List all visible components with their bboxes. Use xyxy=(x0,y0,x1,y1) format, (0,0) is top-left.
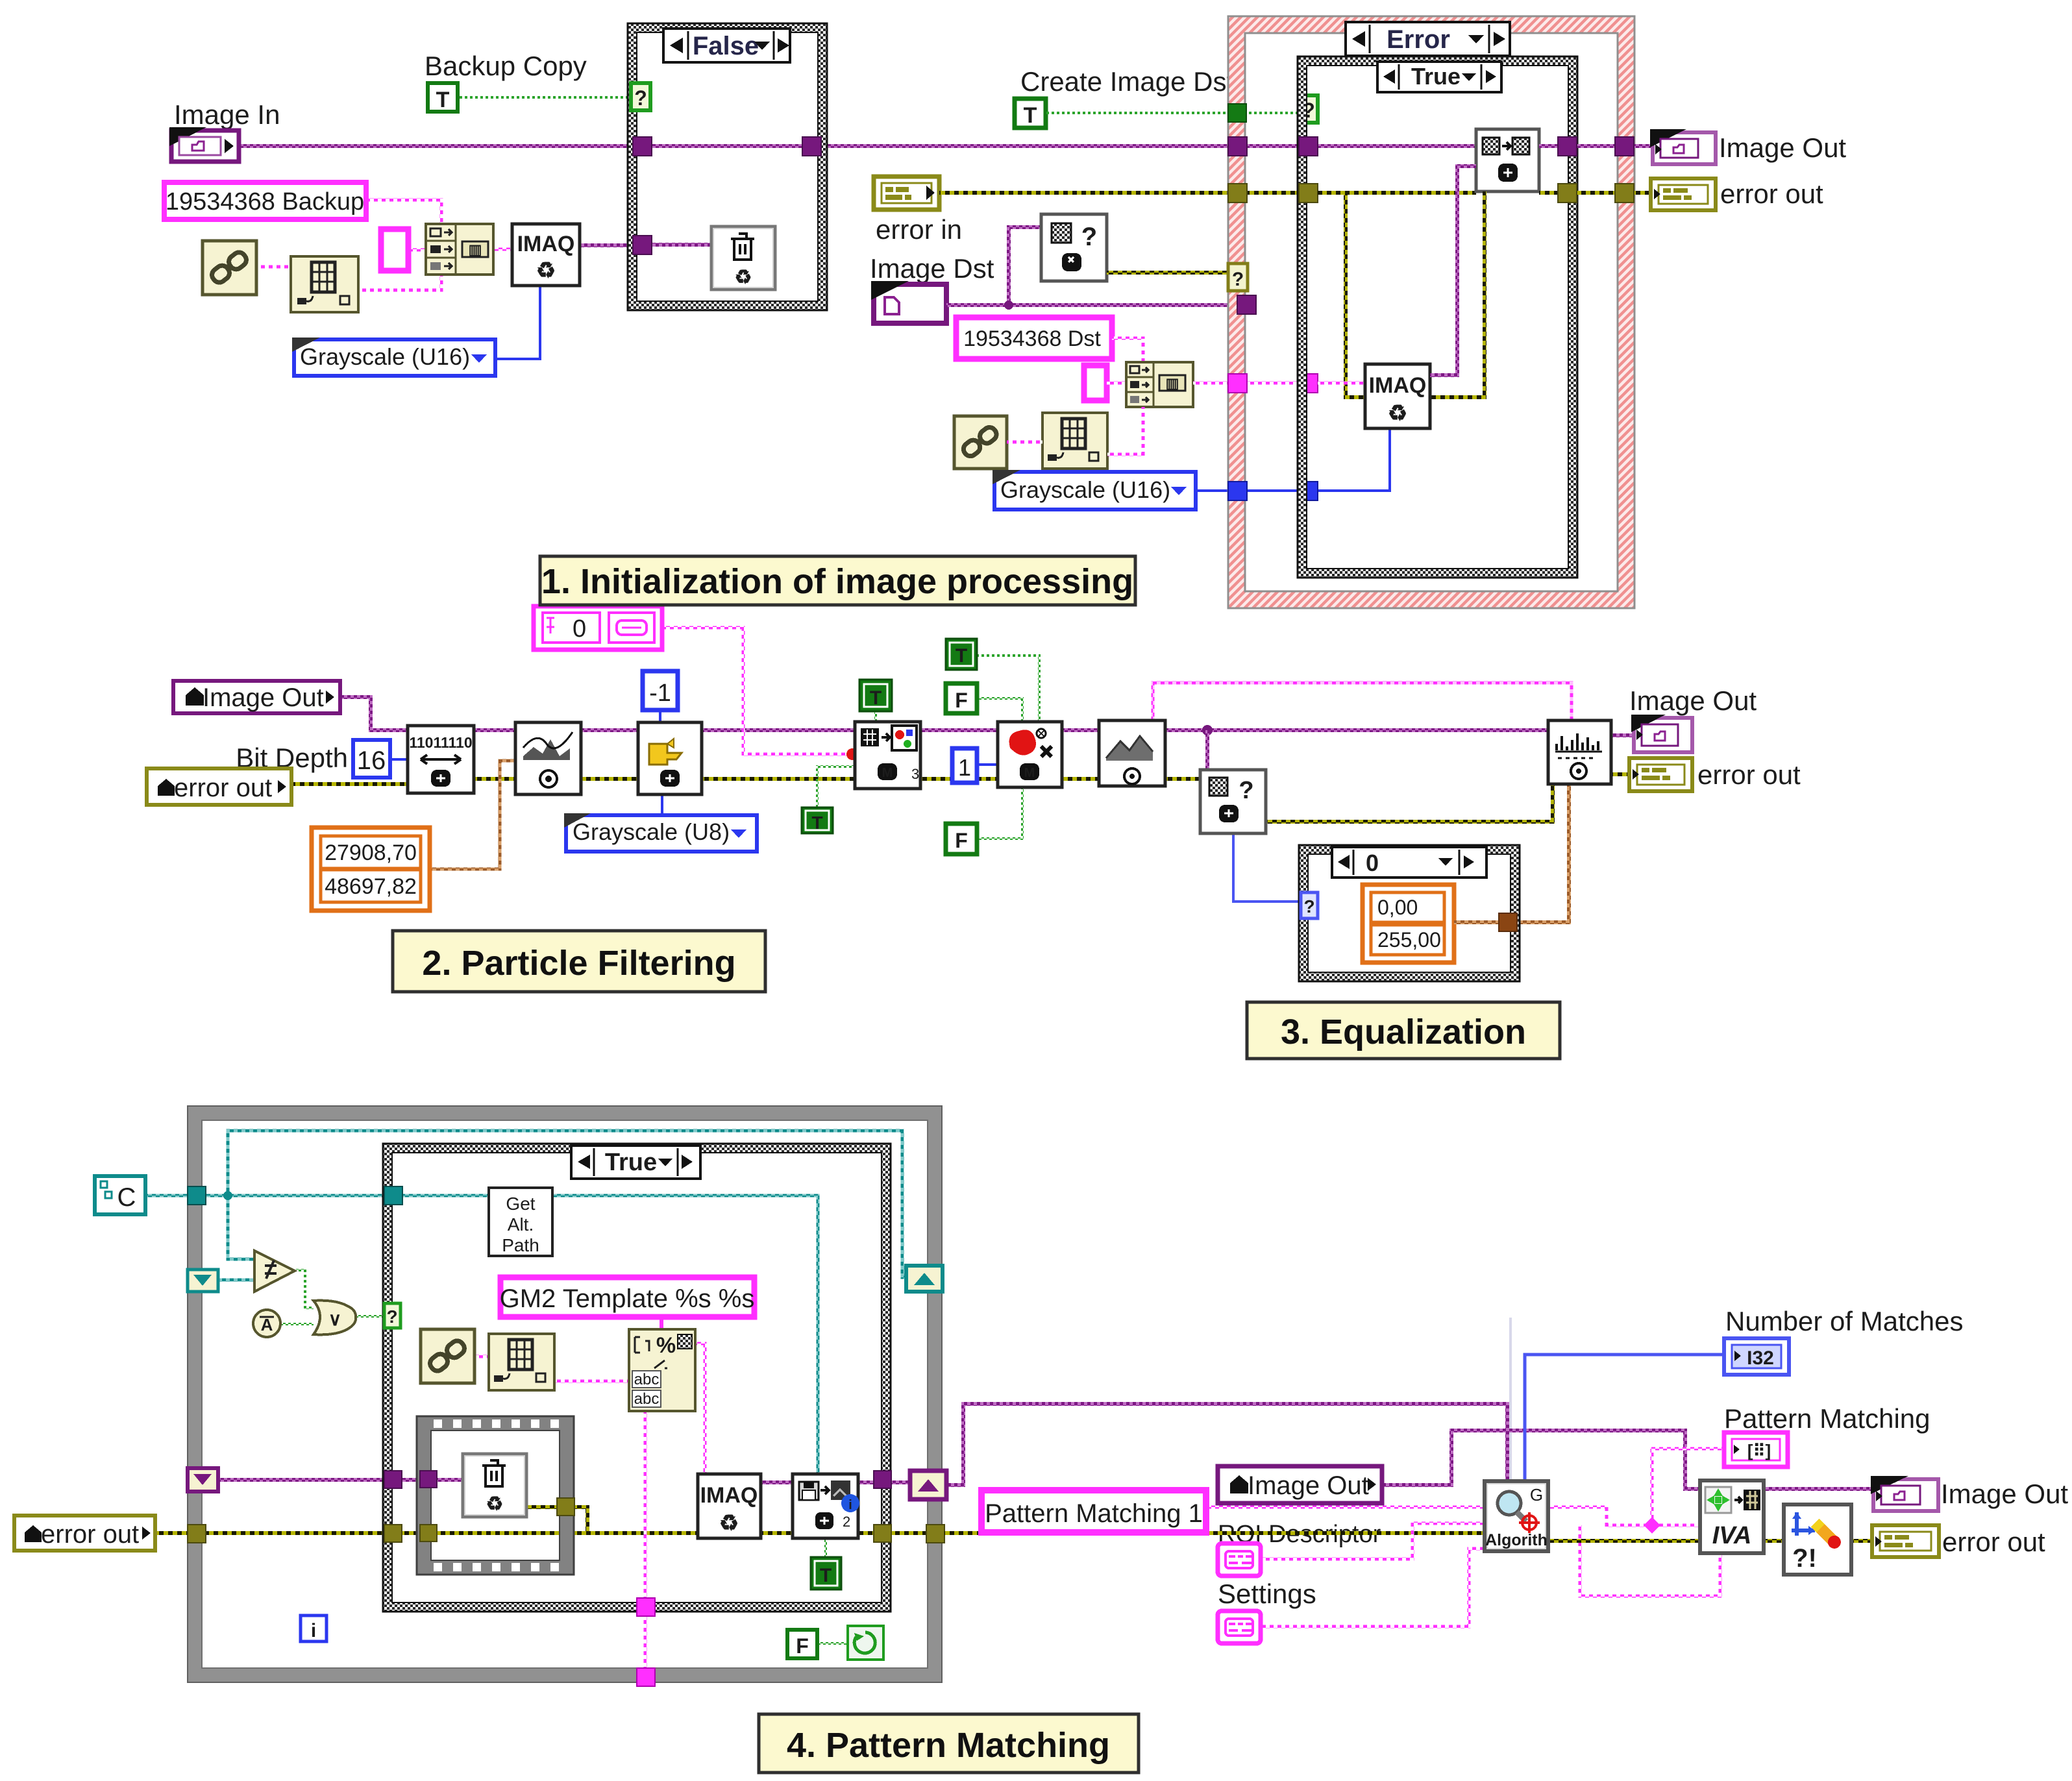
svg-text:Image Out: Image Out xyxy=(1941,1479,2068,1509)
wire error out var across loop xyxy=(155,1531,698,1535)
wire T to save node xyxy=(824,1538,827,1557)
svg-text:?: ? xyxy=(1232,269,1244,290)
tunnel olive on red border right xyxy=(1615,184,1634,203)
svg-text:M: M xyxy=(1024,766,1035,780)
svg-text:abc: abc xyxy=(634,1390,660,1408)
indicator error out (top right) xyxy=(1651,178,1716,210)
svg-text:3. Equalization: 3. Equalization xyxy=(1281,1013,1526,1051)
node Get Alt Path xyxy=(489,1188,552,1256)
tunnel blue on True border xyxy=(1299,482,1318,500)
wire matches branch to Pattern Matching indicator xyxy=(1652,1449,1724,1525)
tunnel purple on case border right xyxy=(874,1471,891,1488)
wire -1 to cast node3 xyxy=(659,711,661,724)
tunnel olive on film border left xyxy=(420,1525,437,1541)
wire error chain (olive) xyxy=(291,779,1553,822)
wire not-equal to or xyxy=(296,1270,314,1308)
svg-text:Backup Copy: Backup Copy xyxy=(425,51,587,81)
label box 4. Pattern Matching xyxy=(759,1714,1139,1773)
boolean constant T above node4 xyxy=(859,680,892,711)
svg-text:GM2 Template %s %s: GM2 Template %s %s xyxy=(500,1284,755,1313)
svg-text:0: 0 xyxy=(1366,850,1379,876)
svg-text:4. Pattern Matching: 4. Pattern Matching xyxy=(787,1726,1110,1765)
local variable Image Out (loop area) xyxy=(1218,1466,1382,1503)
string constant Pattern Matching 1 xyxy=(981,1490,1206,1532)
numeric constant 1 xyxy=(952,748,977,783)
wire chain to grid xyxy=(256,265,291,269)
node5 remove particle xyxy=(998,722,1062,787)
case selector label True xyxy=(1377,62,1501,92)
cluster constant 0 (top) xyxy=(534,606,662,650)
cluster constant 27908,70 48697,82 xyxy=(312,828,430,911)
tunnel green on red border xyxy=(1228,104,1246,122)
wire GM2 to format node xyxy=(660,1317,663,1331)
tunnel brown on case right border xyxy=(1499,913,1517,931)
wire cluster 0 to color node (pink) xyxy=(662,628,850,754)
wire or to case selector xyxy=(356,1315,384,1318)
wire chain3 to grid3 xyxy=(475,1355,489,1358)
svg-text:T: T xyxy=(811,813,822,833)
wire orange from case to node8 (brown) xyxy=(1515,785,1569,922)
svg-text:?: ? xyxy=(386,1307,397,1327)
svg-text:16: 16 xyxy=(357,746,386,775)
wire settings1 to algorithm xyxy=(1259,1523,1485,1559)
case structure False xyxy=(628,23,827,310)
node1 cast 11011110 xyxy=(408,726,474,793)
wire purple down to node7 xyxy=(1205,730,1209,771)
wire node8 image out xyxy=(1611,733,1634,737)
wire Grayscale U16 right to IMAQ create 2 xyxy=(1196,428,1390,491)
wire teal shift register to not-equal xyxy=(218,1279,254,1282)
wire roi pink node6 to node8 (magenta) xyxy=(1153,683,1572,720)
svg-text:Image Out: Image Out xyxy=(1629,685,1757,716)
boolean constant T under save node xyxy=(811,1557,841,1590)
wire IMAQ create dst image to copy xyxy=(1430,166,1476,375)
tunnel olive on True border right xyxy=(1558,184,1577,203)
wire algorithm lower loop to IVA bottom xyxy=(1580,1525,1720,1596)
node IMAQ Dispose (trash) in False case xyxy=(711,227,775,289)
string constant 19534368 Dst xyxy=(956,317,1112,359)
svg-text:[⠿]: [⠿] xyxy=(1747,1441,1771,1460)
svg-text:I32: I32 xyxy=(1747,1347,1774,1369)
boolean constant T (Create Image Dst) xyxy=(1015,99,1046,128)
string constant 19534368 Backup xyxy=(164,182,366,219)
svg-text:2: 2 xyxy=(843,1514,850,1530)
ring constant Grayscale (U16) left xyxy=(292,338,495,376)
svg-text:Algorith: Algorith xyxy=(1485,1531,1548,1549)
tunnel purple on red border (Image Dst) xyxy=(1237,295,1256,314)
wire copy node error out xyxy=(1539,191,1651,195)
wire error IMAQ to save to exit xyxy=(761,1531,1483,1535)
boolean constant T below left of node4 xyxy=(802,807,833,833)
wire error out to algorithm xyxy=(944,1531,1485,1535)
wire T const below to color node4 xyxy=(817,767,855,807)
tunnel pink on case bottom border xyxy=(637,1598,655,1616)
svg-text:Grayscale (U8): Grayscale (U8) xyxy=(573,818,730,845)
wire purple IMAQ to save xyxy=(761,1480,793,1484)
svg-text:-1: -1 xyxy=(649,680,671,707)
node IMAQ Create Dst xyxy=(1365,364,1430,428)
svg-text:Image Out: Image Out xyxy=(1719,132,1846,163)
svg-text:error out: error out xyxy=(1697,759,1801,790)
tunnel olive on case border right xyxy=(874,1525,891,1542)
node IMAQ Write File (save) xyxy=(793,1474,859,1538)
empty array bracket constant 2 xyxy=(1084,365,1107,400)
tunnel olive on loop border xyxy=(188,1525,206,1543)
node3 remove/funnel xyxy=(638,722,702,794)
label box 2. Particle Filtering xyxy=(393,931,765,992)
local variable error out xyxy=(147,768,291,805)
svg-text:i: i xyxy=(311,1620,316,1641)
svg-text:♻: ♻ xyxy=(536,258,556,283)
wire node7 blue to small case selector xyxy=(1233,833,1301,902)
node build array 2 xyxy=(1126,362,1193,407)
coercion dot at color node xyxy=(846,748,858,760)
tunnel pink on loop bottom border xyxy=(637,1668,655,1686)
wire Dst name to build node xyxy=(1112,338,1143,365)
icon chain link constant 2 xyxy=(954,416,1007,469)
wire bracket2 to build node xyxy=(1107,382,1128,385)
case selector label False xyxy=(663,29,790,62)
shift register purple (left, down arrow) xyxy=(188,1468,218,1492)
svg-text:Number of Matches: Number of Matches xyxy=(1725,1306,1963,1336)
svg-text:error out: error out xyxy=(41,1520,139,1549)
wire grid2 up to build2 xyxy=(1107,407,1143,454)
wire image chain (purple) xyxy=(340,697,1548,730)
svg-text:F: F xyxy=(955,829,968,852)
tunnel pink on red border xyxy=(1228,374,1247,393)
svg-text:IMAQ: IMAQ xyxy=(517,232,575,256)
svg-text:error out: error out xyxy=(1720,178,1823,209)
svg-text:19534368 Backup: 19534368 Backup xyxy=(166,188,364,215)
icon chain link constant 3 xyxy=(421,1329,475,1383)
wire teal C into loop xyxy=(145,1194,386,1198)
case structure 0 (small) xyxy=(1299,845,1520,981)
wire purple shift register into case to trash xyxy=(218,1478,464,1482)
svg-text:27908,70: 27908,70 xyxy=(325,841,417,865)
svg-text:T: T xyxy=(956,645,967,667)
shift register teal (right, up arrow) xyxy=(906,1266,943,1292)
svg-text:T: T xyxy=(820,1565,832,1586)
wire chain2 to grid2 xyxy=(1007,441,1042,444)
tunnel purple left (Image In) xyxy=(633,137,652,156)
label box 1. Initialization of image processing xyxy=(540,556,1135,605)
tunnel purple on case border xyxy=(384,1471,402,1488)
node6 mountains xyxy=(1099,720,1165,786)
wire first-call to or xyxy=(281,1323,314,1325)
node IMAQ Copy xyxy=(1476,129,1539,191)
numeric constant -1 xyxy=(643,671,678,710)
node build array xyxy=(426,224,493,275)
svg-text:Path: Path xyxy=(502,1235,539,1255)
ring constant Grayscale (U8) xyxy=(564,813,757,852)
svg-text:?: ? xyxy=(634,86,647,110)
selector terminal ? (green) of True case xyxy=(1300,95,1318,123)
junction diamond on matches wire xyxy=(1644,1517,1660,1533)
svg-text:♻: ♻ xyxy=(486,1493,504,1515)
wire format output to IMAQ readfile xyxy=(695,1344,705,1474)
node or xyxy=(314,1301,356,1335)
svg-text:error in: error in xyxy=(876,214,962,245)
boolean constant T (for node5) xyxy=(946,639,977,670)
tunnels on red border left (redrawn above hatch) xyxy=(1228,104,1246,122)
local variable error out (loop) xyxy=(14,1516,155,1551)
cluster constant C xyxy=(95,1176,145,1214)
svg-text:19534368 Dst: 19534368 Dst xyxy=(963,326,1101,351)
node IMAQ Create (backup) xyxy=(512,224,580,286)
icon chain link constant xyxy=(203,241,256,295)
wire F below to particle node5 xyxy=(977,787,1022,839)
wire range cluster to histogram node (brown) xyxy=(430,761,517,869)
node IMAQ ReadFile xyxy=(698,1474,761,1538)
wire F to particle node5 xyxy=(977,698,1022,723)
svg-text:11011110: 11011110 xyxy=(409,734,472,751)
svg-text:?: ? xyxy=(1303,896,1314,916)
node first call xyxy=(253,1310,280,1337)
svg-text:F: F xyxy=(796,1634,809,1658)
wire settings2 to algorithm xyxy=(1259,1549,1485,1627)
svg-text:▥: ▥ xyxy=(1166,375,1179,391)
tunnel olive on red border (error in) xyxy=(1228,184,1247,203)
node2 histogram xyxy=(515,722,581,794)
node7 is error? xyxy=(1200,770,1266,833)
wire error inside True: tunnel down to IMAQ create xyxy=(1318,193,1365,397)
wire 1 const to node5 xyxy=(977,763,999,766)
case structure True (inner) xyxy=(1298,56,1577,578)
local variable Image Out xyxy=(173,681,340,713)
svg-text:Get: Get xyxy=(506,1194,535,1214)
shift register purple (right, up arrow) xyxy=(910,1471,946,1499)
svg-text:1: 1 xyxy=(958,754,971,781)
flat sequence (film) structure xyxy=(417,1416,574,1575)
indicator Number of Matches I32 xyxy=(1724,1338,1789,1375)
ring constant Grayscale (U16) right xyxy=(993,470,1196,510)
wire F to loop condition xyxy=(817,1642,848,1645)
svg-text:♻: ♻ xyxy=(1388,401,1407,426)
case structure Error (red hatched) xyxy=(1228,16,1634,608)
wire build node to IMAQ create xyxy=(493,248,513,251)
wire Backup Copy boolean to case selector xyxy=(457,96,635,99)
node key-table 2 xyxy=(1042,413,1107,469)
loop condition terminal xyxy=(848,1626,883,1660)
wire Grayscale U8 to node3 xyxy=(661,794,663,817)
wire Image In (purple image wire across top) xyxy=(238,144,1476,148)
tunnel pink on True border xyxy=(1299,374,1318,393)
tunnel purple on film border xyxy=(420,1471,437,1488)
wire teal inside case to GetAltPath and save node xyxy=(402,1196,818,1474)
svg-text:▥: ▥ xyxy=(469,241,482,258)
wire teal top branch xyxy=(228,1131,911,1277)
wire number of matches (blue) xyxy=(1525,1355,1724,1481)
wire Image Dst to tunnel xyxy=(946,303,1239,307)
node not-equal xyxy=(254,1251,295,1292)
wire format string down through borders xyxy=(644,1411,647,1685)
wire trash branch inside False case xyxy=(650,243,711,247)
svg-text:Pattern Matching 1: Pattern Matching 1 xyxy=(985,1499,1203,1528)
wire Create Image Dst to Error-case selector xyxy=(1046,112,1301,114)
cluster constant settings 2 xyxy=(1218,1611,1261,1643)
svg-text:%: % xyxy=(656,1333,676,1358)
wire grid to build node xyxy=(358,270,441,290)
svg-text:Image Out: Image Out xyxy=(203,683,324,712)
svg-text:IMAQ: IMAQ xyxy=(1369,373,1427,398)
shift register teal (left, down arrow) xyxy=(188,1270,218,1292)
node key-table 3 xyxy=(489,1334,554,1390)
junction purple before node7 xyxy=(1202,725,1213,735)
svg-text:Grayscale (U16): Grayscale (U16) xyxy=(300,343,470,370)
tunnel purple on red border left (image) xyxy=(1228,137,1247,156)
svg-text:♻: ♻ xyxy=(719,1511,739,1536)
tunnel olive on loop border right xyxy=(926,1525,944,1543)
cluster constant settings 1 xyxy=(1218,1543,1261,1576)
svg-text:error out: error out xyxy=(174,774,272,802)
svg-text:0,00: 0,00 xyxy=(1377,896,1418,919)
svg-text:True: True xyxy=(605,1149,657,1176)
svg-text:0: 0 xyxy=(573,615,586,643)
tunnel olive on case border xyxy=(384,1525,402,1542)
wire grid3 to format node xyxy=(554,1380,630,1383)
terminal Image Out (top right) xyxy=(1650,129,1716,164)
svg-text:T: T xyxy=(436,88,450,112)
svg-text:255,00: 255,00 xyxy=(1377,928,1441,952)
iteration terminal i xyxy=(301,1615,327,1641)
svg-text:2. Particle Filtering: 2. Particle Filtering xyxy=(422,944,735,983)
svg-text:IMAQ: IMAQ xyxy=(700,1483,758,1508)
selector terminal ? (green, pattern case) xyxy=(384,1303,401,1328)
junction teal xyxy=(223,1191,232,1200)
wire pink inside True to IMAQ create xyxy=(1318,382,1365,385)
node Pattern Matching Algorithm xyxy=(1485,1481,1548,1551)
boolean constant F below (for node5) xyxy=(946,824,977,854)
node8 equalize xyxy=(1548,720,1611,784)
svg-text:?!: ?! xyxy=(1792,1544,1817,1573)
svg-text:?: ? xyxy=(1239,777,1253,804)
tunnel purple right (Image In) xyxy=(802,137,821,156)
cluster constant 0,00 255,00 xyxy=(1363,885,1454,963)
indicator error out (middle) xyxy=(1629,758,1692,791)
wire teal down branch to not-equal xyxy=(228,1196,254,1259)
empty array bracket constant xyxy=(381,229,408,271)
svg-text:∨: ∨ xyxy=(328,1309,342,1329)
indicator Pattern Matching array xyxy=(1724,1432,1788,1467)
wire trash error to junction xyxy=(526,1507,587,1533)
wire 16 to cast node1 xyxy=(390,758,409,761)
svg-text:Image Out: Image Out xyxy=(1248,1471,1369,1500)
svg-text:T: T xyxy=(870,687,882,709)
string constant GM2 Template %s %s xyxy=(500,1277,755,1317)
node IMAQ Dispose (trash in film) xyxy=(463,1454,526,1517)
wire build2 to pink tunnel xyxy=(1193,382,1365,385)
tunnel olive on film border right xyxy=(557,1498,574,1516)
wire Image Out var to IVA (purple) xyxy=(1382,1431,1873,1489)
wire Grayscale U16 to IMAQ create bottom xyxy=(495,286,540,359)
node format into string xyxy=(629,1329,695,1411)
terminal Image Out (middle) xyxy=(1631,715,1692,752)
boolean constant T (Backup Copy) xyxy=(428,83,458,112)
wire IMAQ create output to case tunnel xyxy=(580,243,637,247)
case structure True (pattern) xyxy=(383,1144,891,1612)
svg-text:♻: ♻ xyxy=(735,267,752,288)
wire purple exits loop up to pattern matching xyxy=(946,1404,1507,1485)
svg-text:T: T xyxy=(1024,103,1037,128)
wire cluster to tunnel (brown) xyxy=(1454,920,1505,924)
tunnel teal on loop border xyxy=(188,1186,206,1205)
terminal error in xyxy=(874,177,939,210)
svg-text:Pattern Matching: Pattern Matching xyxy=(1724,1403,1930,1434)
node4 array to color image xyxy=(855,722,920,789)
selector terminal ? (olive) of Error case xyxy=(1228,264,1248,291)
wire T to particle node5 xyxy=(977,656,1039,723)
case selector label Error xyxy=(1346,22,1510,56)
svg-text:C: C xyxy=(117,1183,136,1212)
wire node8 error out xyxy=(1611,772,1629,776)
wire algorithm matches to IVA xyxy=(1548,1507,1700,1525)
case selector label True (pattern) xyxy=(571,1146,700,1179)
case selector terminal ? (green) xyxy=(631,83,650,110)
svg-text:Create Image Dst: Create Image Dst xyxy=(1020,66,1234,97)
svg-text:Image In: Image In xyxy=(174,99,280,130)
while loop border (gray) xyxy=(188,1106,942,1682)
tunnel olive on True border left (error) xyxy=(1299,184,1318,203)
wire empty array bracket to build node xyxy=(408,249,427,252)
tunnel purple on True border right xyxy=(1558,137,1577,156)
wire error in to red structure xyxy=(939,191,1476,195)
svg-text:i: i xyxy=(848,1498,852,1512)
numeric constant 16 xyxy=(353,740,390,778)
svg-text:G: G xyxy=(1530,1485,1543,1505)
svg-text:abc: abc xyxy=(634,1371,660,1388)
svg-text:Alt.: Alt. xyxy=(508,1214,534,1234)
svg-text:1. Initialization of image pro: 1. Initialization of image processing xyxy=(541,562,1133,601)
tunnel blue on red border xyxy=(1228,482,1247,500)
boolean constant F (loop condition) xyxy=(787,1630,817,1658)
wire copy node image out xyxy=(1539,144,1653,148)
svg-text:?: ? xyxy=(1081,223,1097,251)
indicator error out (final) xyxy=(1872,1525,1939,1557)
node IVA xyxy=(1700,1480,1764,1553)
svg-text:F: F xyxy=(955,689,968,712)
svg-text:Error: Error xyxy=(1387,25,1450,54)
light guide line above algorithm node xyxy=(1509,1318,1512,1481)
case selector label 0 xyxy=(1332,847,1486,878)
svg-text:M: M xyxy=(882,766,893,780)
tunnel purple on red border right xyxy=(1615,137,1634,156)
terminal Image Out (final) xyxy=(1871,1476,1938,1511)
tunnel purple on True border left (image) xyxy=(1299,137,1318,156)
svg-text:3: 3 xyxy=(911,766,919,782)
wire IMAQ create error to copy node xyxy=(1430,191,1485,397)
svg-text:Image Dst: Image Dst xyxy=(870,253,994,284)
wire Pattern Matching 1 to algorithm xyxy=(1206,1506,1485,1509)
svg-text:IVA: IVA xyxy=(1712,1522,1752,1549)
wire IsError to case selector tunnel xyxy=(1107,271,1231,275)
svg-text:Settings: Settings xyxy=(1218,1578,1316,1609)
node IsError (Image Dst valid?) xyxy=(1041,214,1107,281)
svg-text:False: False xyxy=(693,32,759,60)
wire error algorithm to IVA to eraser to indicator xyxy=(1548,1539,1873,1543)
wire purple save to shift register xyxy=(858,1480,911,1484)
wire T const to color node4 xyxy=(874,711,877,723)
node key-table (registry) xyxy=(291,256,358,312)
svg-text:True: True xyxy=(1411,63,1461,90)
wire backup name string to build node xyxy=(366,200,441,228)
boolean constant F (for node5) xyxy=(946,683,977,713)
tunnel teal on case border xyxy=(384,1186,402,1205)
svg-text:48697,82: 48697,82 xyxy=(325,874,417,899)
terminal Image In xyxy=(169,127,239,162)
selector terminal ? (blue) xyxy=(1301,892,1318,918)
svg-text:Grayscale (U16): Grayscale (U16) xyxy=(1000,476,1170,503)
label box 3. Equalization xyxy=(1247,1002,1560,1059)
